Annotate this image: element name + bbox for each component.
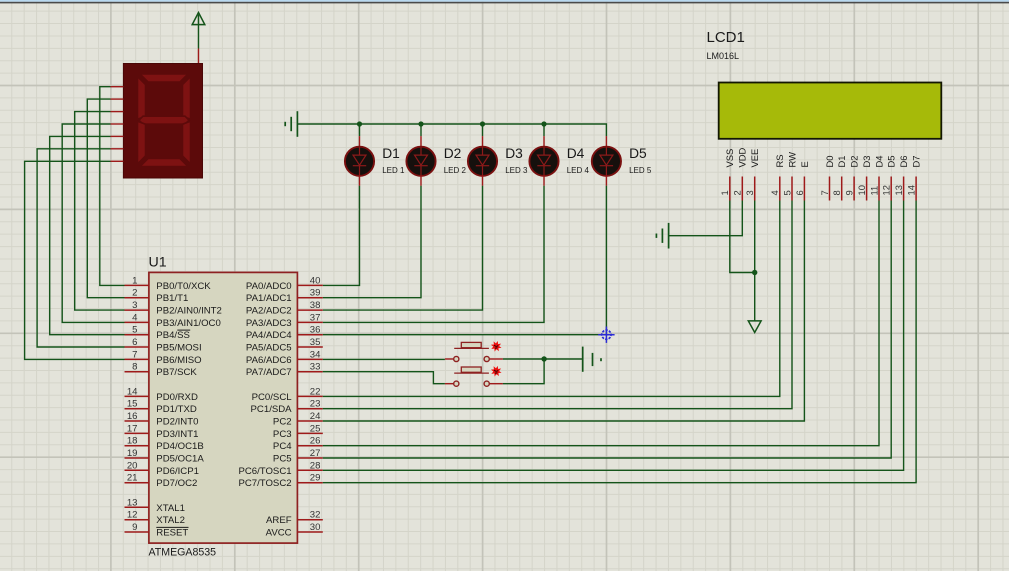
U1 pin 1 (PB0/T0/XCK) [125, 275, 212, 292]
svg-text:2: 2 [132, 288, 137, 299]
svg-text:D4: D4 [567, 146, 585, 161]
segment B [183, 77, 191, 120]
svg-text:PA2/ADC2: PA2/ADC2 [246, 306, 292, 317]
svg-text:PA4/ADC4: PA4/ADC4 [246, 330, 292, 341]
svg-text:32: 32 [310, 510, 321, 521]
svg-text:20: 20 [127, 460, 138, 471]
wire LCD RS to U1 [323, 201, 780, 397]
U1 pin 9 (RESET) [125, 522, 189, 539]
svg-text:XTAL2: XTAL2 [156, 515, 185, 526]
svg-text:D4: D4 [873, 156, 884, 168]
svg-text:PB7/SCK: PB7/SCK [156, 367, 197, 378]
svg-text:PC7/TOSC2: PC7/TOSC2 [238, 478, 291, 489]
svg-text:RW: RW [786, 152, 797, 168]
svg-text:30: 30 [310, 522, 321, 533]
power symbol (up arrow) [192, 13, 205, 25]
segment F [138, 77, 146, 120]
U1 pin 5 (PB4/SS) [125, 325, 191, 342]
display pin 7 stub [111, 160, 124, 162]
svg-text:29: 29 [310, 473, 321, 484]
wire LED D3 to U1 pin 38 [323, 186, 483, 310]
wire: LED top bus [297, 124, 606, 136]
U1 pin 7 (PB6/MISO) [125, 349, 202, 366]
display pin 3 stub [111, 111, 124, 113]
U1 pin 22 (PC0/SCL) [252, 386, 323, 403]
svg-text:PA3/ADC3: PA3/ADC3 [246, 318, 292, 329]
svg-text:26: 26 [310, 436, 321, 447]
svg-text:1: 1 [719, 190, 730, 195]
svg-text:13: 13 [893, 185, 904, 195]
junction node (VSS/VEE) [752, 270, 757, 275]
LCD pin 8 (D1) [831, 156, 847, 201]
svg-text:5: 5 [132, 325, 137, 336]
wire display pin 4 to U1 pin 4 [62, 124, 124, 322]
LED D4 [529, 136, 558, 186]
U1 pin 14 (PD0/RXD) [125, 386, 198, 403]
U1 pin 24 (PC2) [273, 411, 323, 428]
wire LCD D4 to U1 [323, 201, 879, 446]
svg-text:LED 5: LED 5 [629, 166, 652, 175]
wire LCD E to U1 [323, 201, 805, 422]
wire U1 pin 33 to button 2 [323, 372, 445, 384]
LCD pin 1 (VSS) [719, 149, 735, 201]
U1 pin 2 (PB1/T1) [125, 288, 189, 305]
svg-text:PB0/T0/XCK: PB0/T0/XCK [156, 281, 211, 292]
svg-text:PB3/AIN1/OC0: PB3/AIN1/OC0 [156, 318, 221, 329]
ground (buttons) [583, 347, 601, 372]
LED D5 [592, 136, 621, 186]
svg-text:PB1/T1: PB1/T1 [156, 293, 188, 304]
origin crosshair marker [598, 327, 614, 343]
svg-text:LCD1: LCD1 [707, 29, 745, 46]
LED D3 [468, 136, 497, 186]
U1 pin 34 (PA6/ADC6) [246, 349, 323, 366]
svg-text:VEE: VEE [749, 149, 760, 168]
U1 pin 28 (PC6/TOSC1) [238, 460, 322, 477]
svg-text:PC1/SDA: PC1/SDA [251, 404, 293, 415]
display pin 2 stub [111, 98, 124, 100]
U1 pin 32 (AREF) [266, 510, 323, 527]
svg-text:PD1/TXD: PD1/TXD [156, 404, 197, 415]
svg-text:PC2: PC2 [273, 417, 292, 428]
svg-text:12: 12 [127, 510, 138, 521]
ground triangle symbol [748, 321, 761, 333]
wire: bus drop to LED D1 [359, 124, 361, 136]
LCD pin 3 (VEE) [744, 149, 760, 201]
svg-text:25: 25 [310, 423, 321, 434]
svg-text:ATMEGA8535: ATMEGA8535 [149, 547, 217, 559]
LCD pin 6 (E) [794, 161, 810, 200]
U1 pin 36 (PA4/ADC4) [246, 325, 323, 342]
svg-text:27: 27 [310, 448, 321, 459]
svg-text:24: 24 [310, 411, 321, 422]
wire VEE down to ground triangle [754, 201, 756, 321]
button 2 [445, 367, 503, 386]
svg-text:PC6/TOSC1: PC6/TOSC1 [238, 466, 291, 477]
svg-text:PC3: PC3 [273, 429, 292, 440]
U1 pin 21 (PD7/OC2) [125, 473, 198, 490]
svg-text:PA6/ADC6: PA6/ADC6 [246, 355, 292, 366]
U1 pin 18 (PD4/OC1B) [125, 436, 204, 453]
junction node (buttons) [541, 356, 546, 361]
wire: bus drop to LED D4 [543, 124, 545, 136]
svg-text:D3: D3 [505, 146, 523, 161]
wire: bus drop to LED D3 [482, 124, 484, 136]
LCD pin 14 (D7) [906, 156, 922, 201]
U1 pin 3 (PB2/AIN0/INT2) [125, 300, 222, 317]
U1 pin 16 (PD2/INT0) [125, 411, 199, 428]
svg-text:12: 12 [881, 185, 892, 195]
LED D1 [345, 136, 374, 186]
svg-text:PA5/ADC5: PA5/ADC5 [246, 343, 292, 354]
wire U1 pin 34 to button 1 [323, 358, 445, 360]
segment C [183, 121, 191, 164]
display top pin stub [198, 49, 200, 64]
svg-text:VDD: VDD [737, 147, 748, 167]
U1 pin 26 (PC4) [273, 436, 323, 453]
ground (LCD) [656, 223, 668, 249]
svg-text:VSS: VSS [724, 149, 735, 168]
wire display pin 2 to U1 pin 2 [87, 99, 124, 298]
svg-text:RS: RS [774, 154, 785, 167]
junction node at D3 [480, 121, 485, 126]
svg-text:6: 6 [132, 337, 137, 348]
wire display pin 5 to U1 pin 5 [50, 136, 125, 334]
U1 pin 19 (PD5/OC1A) [125, 448, 205, 465]
display pin 5 stub [111, 135, 124, 137]
wire: bus drop to LED D2 [420, 124, 422, 136]
display pin 1 stub [111, 86, 124, 88]
svg-text:PD3/INT1: PD3/INT1 [156, 429, 198, 440]
segment G [139, 116, 189, 124]
wire VSS to VEE junction [730, 201, 755, 273]
svg-text:PB6/MISO: PB6/MISO [156, 355, 201, 366]
U1 pin 37 (PA3/ADC3) [246, 312, 323, 329]
svg-text:PC0/SCL: PC0/SCL [252, 392, 293, 403]
wire LCD D5 to U1 [323, 201, 891, 459]
svg-text:PD0/RXD: PD0/RXD [156, 392, 198, 403]
svg-text:PD2/INT0: PD2/INT0 [156, 417, 198, 428]
segment E [138, 121, 146, 164]
svg-text:11: 11 [868, 186, 879, 196]
svg-text:40: 40 [310, 275, 321, 286]
svg-text:7: 7 [132, 349, 137, 360]
U1 pin 13 (XTAL1) [125, 497, 185, 514]
svg-text:9: 9 [132, 522, 137, 533]
svg-text:9: 9 [844, 190, 855, 195]
svg-text:15: 15 [127, 399, 138, 410]
U1 pin 39 (PA1/ADC1) [246, 288, 323, 305]
wire: power arrow to display top pin [198, 25, 200, 49]
junction node at D1 [357, 121, 362, 126]
wire display pin 7 to U1 pin 7 [25, 161, 125, 359]
svg-text:LM016L: LM016L [707, 51, 740, 61]
svg-text:E: E [799, 161, 810, 167]
LCD pin 9 (D2) [844, 156, 860, 201]
button 2 actuator star [492, 367, 500, 375]
junction node at D2 [418, 121, 423, 126]
svg-text:39: 39 [310, 288, 321, 299]
svg-text:8: 8 [831, 190, 842, 195]
U1 pin 8 (PB7/SCK) [125, 362, 198, 379]
svg-text:16: 16 [127, 411, 138, 422]
U1 pin 20 (PD6/ICP1) [125, 460, 199, 477]
svg-text:3: 3 [132, 300, 137, 311]
svg-text:18: 18 [127, 436, 138, 447]
U1 pin 30 (AVCC) [266, 522, 323, 539]
LCD pin 4 (RS) [769, 154, 785, 200]
svg-text:2: 2 [732, 190, 743, 195]
svg-text:1: 1 [132, 275, 137, 286]
svg-text:PB2/AIN0/INT2: PB2/AIN0/INT2 [156, 306, 222, 317]
svg-text:LED 3: LED 3 [505, 166, 528, 175]
wire LED D1 to U1 pin 40 [323, 186, 360, 286]
svg-text:LED 4: LED 4 [567, 166, 590, 175]
svg-text:D2: D2 [849, 156, 860, 168]
window top edge [0, 0, 1009, 2]
display pin 6 stub [111, 148, 124, 150]
LCD screen body [719, 83, 942, 139]
U1 pin 17 (PD3/INT1) [125, 423, 199, 440]
U1 pin 40 (PA0/ADC0) [246, 275, 323, 292]
svg-text:4: 4 [132, 312, 138, 323]
wire button 2 to junction [503, 359, 544, 384]
wire LCD D7 to U1 [323, 201, 916, 483]
svg-text:D5: D5 [886, 156, 897, 168]
junction node at D4 [541, 121, 546, 126]
ground (LED bus) [285, 111, 297, 137]
wire display pin 3 to U1 pin 3 [75, 112, 125, 311]
7-segment display body [123, 64, 202, 179]
svg-text:LED 1: LED 1 [382, 166, 405, 175]
svg-text:AREF: AREF [266, 515, 292, 526]
wire LED D2 to U1 pin 39 [323, 186, 421, 298]
button 1 actuator star [492, 342, 500, 350]
wire VDD to ground [669, 201, 743, 236]
svg-text:34: 34 [310, 349, 321, 360]
U1 pin 29 (PC7/TOSC2) [238, 473, 322, 490]
svg-text:36: 36 [310, 325, 321, 336]
svg-text:10: 10 [856, 185, 867, 195]
segment D [140, 159, 188, 167]
wire display pin 6 to U1 pin 6 [37, 149, 124, 347]
U1 pin 25 (PC3) [273, 423, 323, 440]
svg-text:14: 14 [906, 185, 917, 195]
svg-text:D0: D0 [824, 156, 835, 168]
wire LED D5 to U1 pin 36 [323, 186, 607, 335]
svg-text:D7: D7 [911, 156, 922, 168]
svg-text:19: 19 [127, 448, 138, 459]
svg-text:PD6/ICP1: PD6/ICP1 [156, 466, 199, 477]
svg-text:D5: D5 [629, 146, 647, 161]
IC U1 body [149, 272, 298, 543]
LCD pin 2 (VDD) [732, 147, 748, 200]
svg-text:PD5/OC1A: PD5/OC1A [156, 454, 204, 465]
svg-text:8: 8 [132, 362, 137, 373]
svg-text:D3: D3 [861, 156, 872, 168]
svg-text:AVCC: AVCC [266, 528, 292, 539]
svg-text:4: 4 [769, 190, 780, 195]
U1 pin 27 (PC5) [273, 448, 323, 465]
svg-text:LED 2: LED 2 [444, 166, 467, 175]
svg-text:33: 33 [310, 362, 321, 373]
svg-text:28: 28 [310, 460, 321, 471]
svg-text:PB5/MOSI: PB5/MOSI [156, 343, 201, 354]
svg-text:14: 14 [127, 386, 138, 397]
segment A [140, 74, 188, 82]
wire button 1 to junction/ground [503, 358, 583, 360]
LCD pin 7 (D0) [819, 156, 835, 201]
svg-text:35: 35 [310, 337, 321, 348]
svg-text:17: 17 [127, 423, 138, 434]
LCD pin 10 (D3) [856, 156, 872, 201]
button 1 [445, 342, 503, 361]
svg-text:PB4/SS: PB4/SS [156, 330, 190, 341]
svg-text:PC4: PC4 [273, 441, 292, 452]
svg-text:37: 37 [310, 312, 321, 323]
svg-text:RESET: RESET [156, 528, 188, 539]
U1 pin 33 (PA7/ADC7) [246, 362, 323, 379]
U1 pin 23 (PC1/SDA) [251, 399, 323, 416]
U1 pin 6 (PB5/MOSI) [125, 337, 202, 354]
svg-text:13: 13 [127, 497, 138, 508]
svg-text:21: 21 [127, 473, 138, 484]
svg-text:PA7/ADC7: PA7/ADC7 [246, 367, 292, 378]
U1 pin 35 (PA5/ADC5) [246, 337, 323, 354]
svg-text:PD4/OC1B: PD4/OC1B [156, 441, 203, 452]
LCD pin 13 (D6) [893, 156, 909, 201]
U1 pin 38 (PA2/ADC2) [246, 300, 323, 317]
svg-text:22: 22 [310, 386, 321, 397]
svg-text:23: 23 [310, 399, 321, 410]
svg-text:3: 3 [744, 190, 755, 195]
svg-text:D1: D1 [836, 156, 847, 168]
svg-text:D1: D1 [382, 146, 400, 161]
svg-text:PC5: PC5 [273, 454, 292, 465]
svg-text:38: 38 [310, 300, 321, 311]
svg-text:U1: U1 [149, 255, 167, 271]
svg-text:PD7/OC2: PD7/OC2 [156, 478, 197, 489]
wire LCD D6 to U1 [323, 201, 904, 471]
svg-text:D2: D2 [444, 146, 462, 161]
wire LED D4 to U1 pin 37 [323, 186, 544, 323]
svg-text:7: 7 [819, 190, 830, 195]
LCD pin 5 (RW) [781, 152, 797, 201]
U1 pin 4 (PB3/AIN1/OC0) [125, 312, 221, 329]
wire display pin 1 to U1 pin 1 [100, 87, 125, 286]
LCD pin 11 (D4) [868, 156, 884, 201]
svg-text:PA1/ADC1: PA1/ADC1 [246, 293, 292, 304]
svg-text:5: 5 [781, 190, 792, 195]
wire LCD RW to U1 [323, 201, 792, 409]
svg-text:D6: D6 [898, 156, 909, 168]
LED D2 [406, 136, 435, 186]
svg-text:XTAL1: XTAL1 [156, 503, 185, 514]
U1 pin 15 (PD1/TXD) [125, 399, 197, 416]
LCD pin 12 (D5) [881, 156, 897, 201]
U1 pin 12 (XTAL2) [125, 510, 185, 527]
svg-text:PA0/ADC0: PA0/ADC0 [246, 281, 292, 292]
svg-text:6: 6 [794, 190, 805, 195]
display pin 4 stub [111, 123, 124, 125]
